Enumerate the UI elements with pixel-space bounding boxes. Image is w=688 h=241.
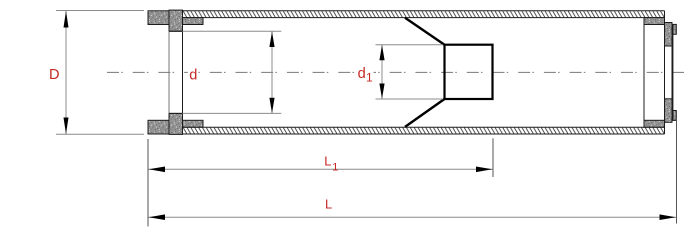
dimension L line [149, 216, 677, 218]
dimension D top arrow [64, 11, 69, 28]
dimension L right arrow [660, 214, 676, 220]
dimension L1 right extension line [492, 138, 494, 177]
diffuser box [445, 45, 493, 99]
right end ring right edge [671, 23, 673, 123]
dimension D top extension line [56, 10, 144, 12]
tube bottom inner line [183, 126, 665, 128]
dimension d bottom extension / hole edge [169, 112, 183, 114]
dimension D bottom arrow [64, 118, 69, 135]
left end plate bottom section [169, 113, 183, 134]
dimension d1 top extension line [376, 44, 444, 46]
diffuser bottom cone line [405, 99, 445, 127]
right inner sleeve left edge [643, 18, 645, 128]
tube right end face [664, 11, 666, 134]
tube top wall hatch [183, 11, 665, 18]
dimension L left arrow [149, 214, 165, 220]
dimension L1 left extension line [147, 139, 149, 227]
dimension d top extension / hole edge [169, 30, 183, 32]
right outer ring bottom block [673, 111, 676, 121]
diffuser top cone line [405, 18, 445, 45]
dimension L right extension line [676, 119, 678, 224]
dimension D line [65, 11, 67, 134]
dimension d1 bottom extension line [376, 98, 444, 100]
dimension L1 left arrow [149, 167, 165, 173]
dimension L1 right arrow [476, 167, 492, 173]
dimension d1 line [381, 45, 383, 99]
right inner sleeve top block [644, 18, 665, 25]
tube bottom wall hatch [183, 127, 665, 134]
left flange ring top block [148, 11, 169, 25]
left end plate right edge [182, 10, 184, 134]
svg-text:L: L [325, 197, 332, 212]
right outer ring left edge silhouette [672, 24, 674, 120]
tube top inner line [183, 17, 665, 19]
dimension d1 top arrow [379, 45, 384, 60]
svg-text:d: d [358, 66, 366, 82]
dimension d line [271, 32, 273, 114]
left flange ring bottom block [148, 120, 169, 134]
dimension D bottom extension line [56, 133, 144, 135]
centerline [107, 71, 684, 73]
svg-text:1: 1 [332, 162, 338, 174]
left end plate top section [169, 10, 183, 31]
dimension d1 bottom arrow [379, 84, 384, 99]
dimension d top arrow [269, 32, 274, 47]
svg-text:D: D [49, 67, 60, 83]
right inner sleeve bottom block [644, 120, 665, 127]
left end plate left edge [168, 10, 170, 31]
svg-text:L: L [324, 153, 331, 168]
tube top outer line [183, 10, 665, 12]
svg-text:d: d [189, 67, 197, 83]
left inner sleeve top block [183, 18, 204, 25]
dimension d bottom arrow [269, 98, 274, 113]
tube bottom outer line [183, 133, 665, 135]
right outer ring top block [673, 24, 676, 34]
right end ring top section [665, 23, 673, 47]
svg-text:1: 1 [366, 70, 373, 84]
left inner sleeve bottom block [183, 120, 204, 127]
right end ring bottom section [665, 99, 673, 123]
dimension L1 line [149, 168, 493, 170]
